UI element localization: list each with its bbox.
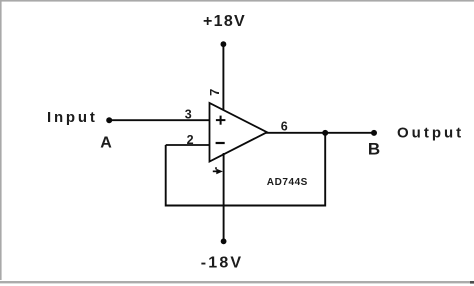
- svg-text:-18V: -18V: [201, 254, 244, 271]
- op-amp minus input symbol: [216, 142, 225, 144]
- wire: op-amp pin 4 to -18V terminal: [223, 153, 225, 241]
- svg-text:+18V: +18V: [203, 13, 246, 30]
- svg-text:Output: Output: [397, 125, 464, 142]
- -18V terminal dot: [221, 238, 227, 244]
- feedback wire loop: [166, 133, 326, 206]
- output terminal dot / node B: [371, 130, 377, 136]
- op-amp plus input symbol: [216, 116, 226, 125]
- svg-text:AD744S: AD744S: [267, 177, 308, 188]
- node A dot: [106, 117, 112, 123]
- svg-text:6: 6: [281, 120, 288, 134]
- pin 4 number (rotated digit): [213, 167, 223, 174]
- +18V terminal dot: [221, 41, 227, 47]
- svg-text:3: 3: [185, 108, 192, 122]
- svg-text:B: B: [368, 139, 380, 158]
- svg-text:A: A: [100, 134, 112, 151]
- wire: +18V terminal to op-amp pin 7: [222, 44, 224, 111]
- wire: op-amp pin 2 to feedback: [166, 144, 210, 146]
- svg-text:Input: Input: [47, 109, 98, 126]
- svg-text:7: 7: [207, 89, 222, 96]
- feedback junction dot: [322, 130, 328, 136]
- wire: op-amp output pin 6 to output terminal: [266, 132, 374, 134]
- wire: input to op-amp pin 3: [109, 119, 209, 121]
- op-amp U1 triangle: [210, 103, 268, 162]
